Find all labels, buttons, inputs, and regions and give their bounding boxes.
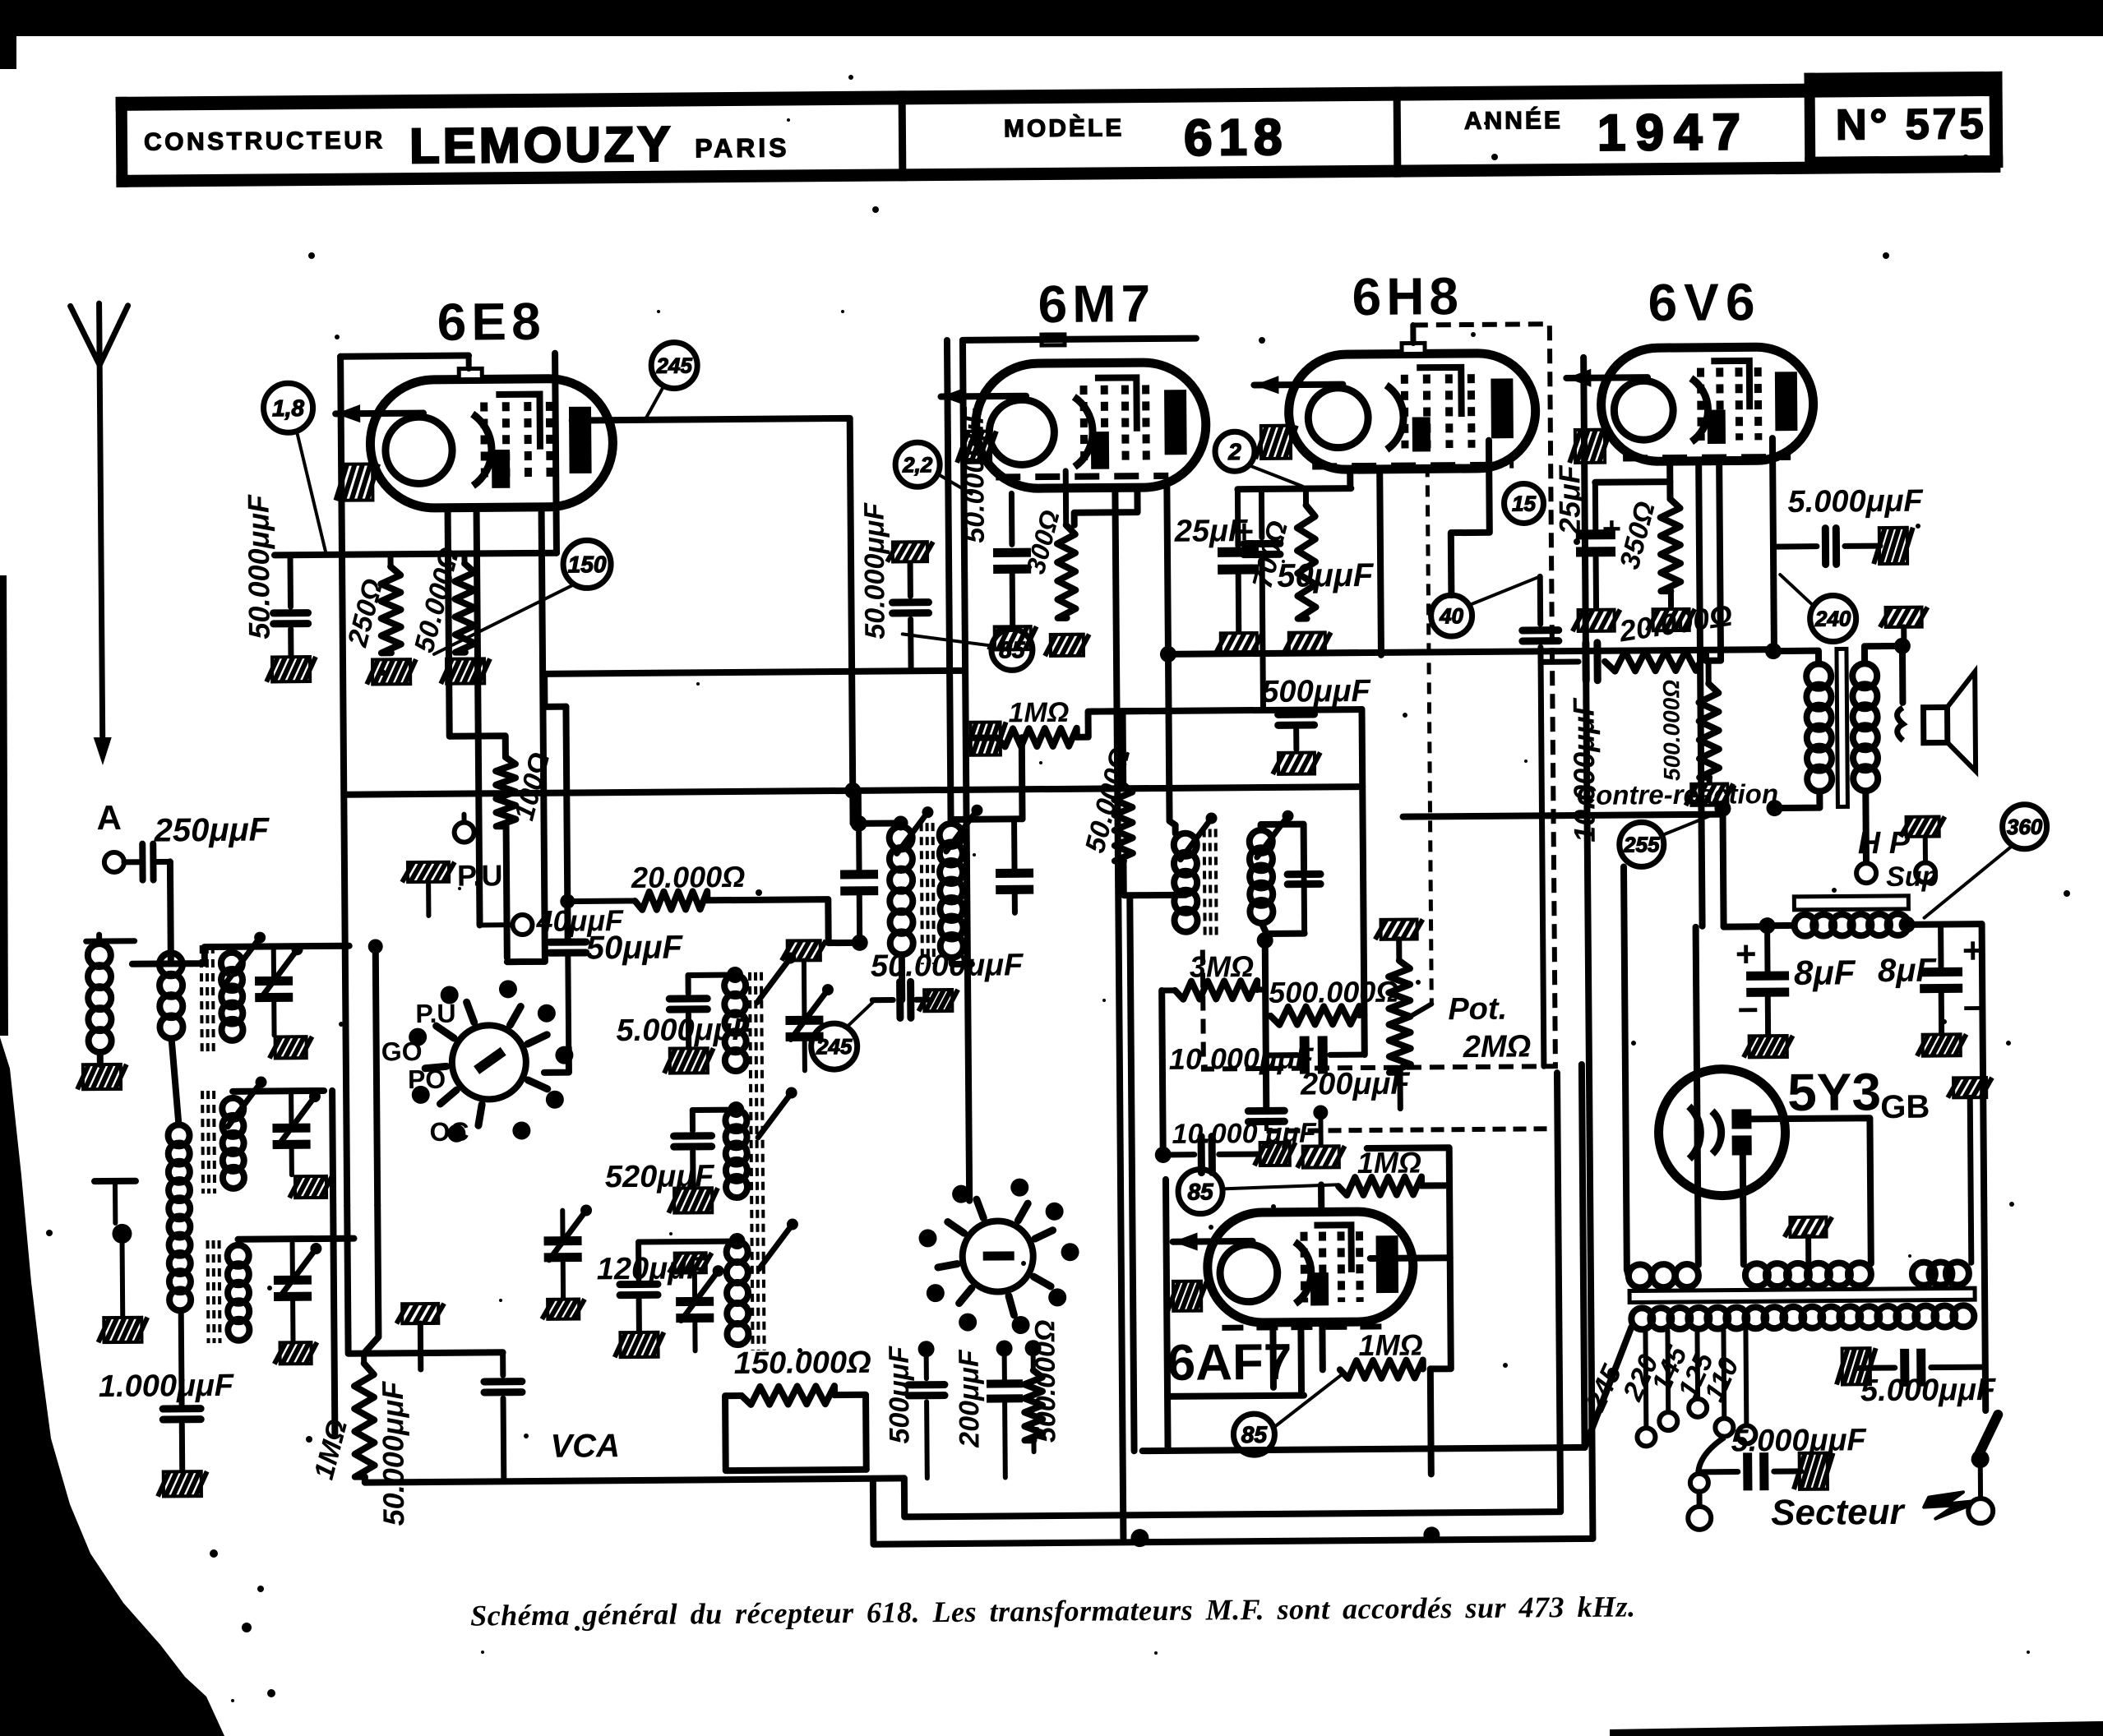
ground 8uF a xyxy=(1744,1036,1793,1057)
header brand LEMOUZY xyxy=(409,117,674,174)
wire xyxy=(725,1395,867,1471)
ground det xyxy=(1296,1105,1345,1167)
svg-text:500μμF: 500μμF xyxy=(1261,674,1372,709)
ground antenna coil xyxy=(77,1064,127,1089)
wire xyxy=(572,418,853,793)
svg-text:OC: OC xyxy=(429,1117,469,1147)
label 2MΩ xyxy=(1463,1029,1532,1064)
svg-text:Sup: Sup xyxy=(1886,861,1939,893)
svg-text:50.000μμF: 50.000μμF xyxy=(376,1381,410,1526)
tube 5Y3GB label xyxy=(1787,1062,1930,1126)
label GO xyxy=(381,1037,423,1066)
coupling network 6V6 20.000Ω xyxy=(1540,598,1735,681)
svg-text:6V6: 6V6 xyxy=(1648,272,1761,332)
svg-text:+: + xyxy=(1736,934,1757,974)
wire xyxy=(1768,922,1795,929)
wire xyxy=(963,339,1196,340)
svg-text:85: 85 xyxy=(1187,1179,1213,1204)
ground 6H8 arrow xyxy=(1255,426,1296,459)
header city PARIS xyxy=(695,132,790,163)
svg-text:GB: GB xyxy=(1880,1089,1930,1125)
wire xyxy=(1770,649,1777,651)
wire xyxy=(97,1052,104,1064)
wire line 866 xyxy=(1092,709,1362,712)
wire xyxy=(506,826,507,958)
wire vertical 456 xyxy=(376,946,377,1205)
wire xyxy=(1773,651,1819,664)
wire xyxy=(544,1048,569,1073)
circled 245 xyxy=(645,342,698,418)
trimmer C t2 xyxy=(274,1243,323,1341)
antenna xyxy=(71,303,132,766)
tube 6V6 metallization dashes xyxy=(1623,457,1791,459)
capacitor 500μμF xyxy=(1261,674,1372,774)
capacitor 25μF 6H8 xyxy=(1173,489,1259,632)
resistor 500.000Ω osc xyxy=(1024,1319,1061,1452)
potentiometer 2MΩ xyxy=(1375,919,1425,1108)
wire xyxy=(1666,462,1673,499)
resistor 50.000Ω screen feed xyxy=(1079,744,1138,895)
svg-text:85: 85 xyxy=(999,637,1025,663)
hatch block t1b xyxy=(289,1176,332,1198)
wire xyxy=(1237,488,1351,489)
wire xyxy=(1265,940,1267,1110)
wire xyxy=(970,735,997,741)
wire xyxy=(1168,654,1176,825)
wire xyxy=(834,1395,867,1470)
top cap 6E8 xyxy=(459,355,482,379)
wire vertical 402 xyxy=(332,1091,335,1436)
top cap 6H8 xyxy=(1402,325,1425,353)
header label ANNEE xyxy=(1464,106,1563,135)
resistor 500.000Ω 6V6 xyxy=(1658,661,1719,783)
hatch HP xyxy=(1901,816,1945,836)
capacitor 1.000μμF xyxy=(98,1310,235,1471)
wire screen to T2 xyxy=(1124,892,1186,899)
ground 6V6 arrow xyxy=(1569,430,1611,463)
wire B+ 797 xyxy=(1168,649,1773,654)
svg-text:ANNÉE: ANNÉE xyxy=(1464,106,1563,135)
wire xyxy=(899,954,905,1000)
wire xyxy=(1261,824,1304,870)
wire xyxy=(448,507,506,758)
ground 6AF7 xyxy=(1167,1281,1207,1311)
svg-text:5.000μμF: 5.000μμF xyxy=(1787,484,1924,519)
wire xyxy=(1166,1179,1304,1397)
label PO xyxy=(408,1064,446,1094)
wire vertical 1922 xyxy=(1582,1064,1585,1447)
capacitor 50μμF xyxy=(550,930,685,1048)
ground 50000pf xyxy=(266,657,316,681)
wire 6M7 pin2 long xyxy=(1115,487,1123,1538)
svg-text:40: 40 xyxy=(1439,603,1464,628)
antenna coil GO winding xyxy=(168,1124,191,1310)
tube 6H8 label xyxy=(1352,266,1463,326)
capacitor 200μμF osc xyxy=(954,1348,1024,1478)
wire xyxy=(707,899,859,944)
trimmer C t1 xyxy=(255,944,304,1035)
power transformer T3 xyxy=(1629,1262,1976,1329)
coil L4 with core xyxy=(208,1240,250,1343)
wire xyxy=(1162,990,1163,1155)
ground OT xyxy=(1880,607,1928,650)
wire xyxy=(1722,805,1723,927)
circled 15 xyxy=(1504,483,1543,523)
ground 250ohm xyxy=(367,659,416,684)
antenna coil primary xyxy=(86,935,136,1052)
label contre reaction xyxy=(1576,778,1778,810)
osc coil 1 xyxy=(724,952,797,1071)
ground 520pf xyxy=(668,1188,718,1212)
wire xyxy=(555,353,557,553)
pot wiper dashed xyxy=(1406,465,1431,1016)
resistor 1MΩ AVC 6M7 xyxy=(964,697,1077,755)
wire xyxy=(1699,462,1702,926)
label Pot xyxy=(1448,992,1507,1027)
tube 6M7 xyxy=(941,362,1206,490)
svg-text:150: 150 xyxy=(568,552,607,577)
header band xyxy=(116,82,2001,187)
wire bus VCA xyxy=(365,1478,904,1482)
circled 2,2 xyxy=(895,442,971,495)
tube 6AF7 label xyxy=(1167,1334,1292,1392)
wire xyxy=(1262,923,1305,934)
speaker xyxy=(1897,672,1976,772)
wire xyxy=(1627,1270,1629,1277)
tube 6E8 label xyxy=(437,292,545,352)
wire long bus 960 xyxy=(344,787,1362,795)
tube 6AF7 xyxy=(1172,1212,1413,1323)
tube 6M7 metallization dashes xyxy=(996,476,1168,478)
svg-text:5Y3: 5Y3 xyxy=(1787,1062,1881,1122)
capacitor 250μμF antenna series xyxy=(123,811,270,880)
trimmer osc B xyxy=(669,1253,725,1351)
circled 85 c xyxy=(903,629,1033,671)
svg-text:5.000μμF: 5.000μμF xyxy=(616,1013,752,1048)
svg-text:50.000μμF: 50.000μμF xyxy=(959,406,991,543)
wire xyxy=(1862,791,1870,863)
wire xyxy=(1077,711,1167,737)
svg-text:50.000μμF: 50.000μμF xyxy=(871,948,1024,983)
tap label 110 xyxy=(1698,1353,1745,1407)
resistor 700Ω xyxy=(1246,488,1315,619)
svg-text:Secteur: Secteur xyxy=(1771,1492,1907,1533)
oscillator coil core xyxy=(750,972,765,1350)
wire xyxy=(1120,711,1127,784)
coil L3b with core xyxy=(202,1077,268,1194)
tap label 145 xyxy=(1645,1341,1694,1397)
capacitor T1 secondary xyxy=(996,822,1034,912)
svg-text:500.000Ω: 500.000Ω xyxy=(1658,680,1685,781)
resistor 50.000Ω cathode xyxy=(408,544,475,657)
wire xyxy=(167,861,174,963)
svg-text:250μμF: 250μμF xyxy=(153,811,270,848)
wire xyxy=(1773,438,1774,649)
svg-text:1MΩ: 1MΩ xyxy=(1358,1327,1422,1362)
tube 6V6 xyxy=(1566,347,1814,462)
wire xyxy=(952,958,972,964)
circled 1,8 xyxy=(263,383,326,552)
capacitor 25μF 6V6 xyxy=(1552,464,1622,608)
terminal HP2 xyxy=(1916,837,1935,883)
dashed box detector xyxy=(1198,324,1555,1069)
wire xyxy=(176,947,229,964)
tube 6AF7 metallization dashes xyxy=(1222,1327,1394,1328)
wire xyxy=(347,1204,502,1353)
capacitor 5.000μμF anode xyxy=(1773,484,1925,565)
wire xyxy=(132,960,176,967)
tube 5Y3GB xyxy=(1658,1069,1786,1196)
secteur terminal 1 xyxy=(1688,1492,1711,1530)
circled 240 xyxy=(1780,574,1856,642)
svg-text:PO: PO xyxy=(408,1064,446,1094)
junction t1 xyxy=(850,815,867,832)
header label CONSTRUCTEUR xyxy=(144,127,386,155)
svg-text:LEMOUZY: LEMOUZY xyxy=(409,117,674,174)
wire xyxy=(477,507,478,718)
wire xyxy=(363,1205,378,1353)
capacitor T2 sec xyxy=(1287,874,1321,933)
ground screen cap xyxy=(989,626,1037,649)
svg-text:1.000μμF: 1.000μμF xyxy=(99,1369,235,1404)
header year 1947 xyxy=(1597,104,1750,161)
resistor 250Ω xyxy=(341,554,401,653)
terminal PU1 xyxy=(454,815,474,843)
wire HT left xyxy=(1624,867,1627,1270)
wire xyxy=(1380,469,1381,655)
wire xyxy=(1347,469,1353,488)
ground 8uF b xyxy=(1917,1034,1967,1055)
tap label 220 xyxy=(1616,1350,1665,1406)
capacitor 500μμF osc xyxy=(884,1345,945,1478)
wire xyxy=(544,671,964,674)
svg-text:245: 245 xyxy=(816,1034,853,1059)
circled 255 b xyxy=(1619,813,1718,867)
ground 350ohm xyxy=(1648,609,1695,630)
capacitor 520μμF xyxy=(604,1110,737,1194)
capacitor 8μF a xyxy=(1736,925,1857,1034)
wire xyxy=(238,1239,354,1240)
tube 6M7 label xyxy=(1038,274,1155,334)
resistor 3MΩ xyxy=(1162,949,1265,1000)
resistor 20.000Ω xyxy=(567,860,746,911)
terminal T terre xyxy=(95,1181,136,1316)
hatch block t1 xyxy=(270,1037,312,1058)
svg-text:8μF: 8μF xyxy=(1794,953,1856,992)
wire xyxy=(1074,487,1137,525)
svg-text:2MΩ: 2MΩ xyxy=(1463,1029,1532,1064)
scan artifact top bar xyxy=(0,0,2103,69)
svg-text:50.000μμF: 50.000μμF xyxy=(241,494,275,639)
svg-text:5.000μμF: 5.000μμF xyxy=(1860,1373,1997,1408)
resistor 150.000Ω xyxy=(734,1346,872,1405)
svg-text:−: − xyxy=(1737,990,1759,1030)
capacitor 50.000μμF AVC xyxy=(375,1304,446,1526)
trimmer osc A xyxy=(782,940,834,1070)
resistor 100Ω xyxy=(496,750,557,827)
svg-text:50.000μμF: 50.000μμF xyxy=(858,502,890,639)
filter choke xyxy=(1794,896,1908,936)
capacitor 8μF b xyxy=(1878,924,1985,1033)
hatch HV center tap xyxy=(1784,1217,1832,1264)
top cap 6M7 xyxy=(1042,335,1065,345)
resistor 1MΩ a xyxy=(1338,1145,1422,1195)
wire vertical 1658 xyxy=(1361,709,1364,1015)
tube 6H8 metallization dashes xyxy=(1312,465,1514,467)
label OC xyxy=(429,1117,469,1147)
ground 5000pf osc xyxy=(664,1048,714,1073)
label HP xyxy=(1858,826,1911,861)
ground 700ohm xyxy=(1283,632,1331,653)
svg-text:3MΩ: 3MΩ xyxy=(1190,949,1254,984)
capacitor T1 primary xyxy=(839,791,878,943)
wire xyxy=(1909,921,1982,928)
wire xyxy=(857,820,901,826)
wire xyxy=(1706,658,1721,664)
scan artifact bottom right strip xyxy=(1610,1721,2103,1736)
label PU xyxy=(457,858,511,893)
wire bus bottom1 xyxy=(873,1473,1593,1544)
header sheet number box N 575 xyxy=(1804,72,2003,169)
tap label 245 xyxy=(1579,1359,1629,1416)
terminal 40μμF xyxy=(479,903,624,938)
wire xyxy=(1595,478,1670,486)
svg-text:P.U.: P.U. xyxy=(457,858,511,893)
wire xyxy=(849,791,856,824)
svg-text:50μμF: 50μμF xyxy=(1277,557,1375,594)
IF transformer T1 xyxy=(889,805,984,965)
IF transformer T2 xyxy=(1173,810,1294,940)
wire xyxy=(1696,927,1699,1265)
wire xyxy=(1982,924,1986,1410)
wire bus 1766 xyxy=(1143,1447,1585,1451)
wire 6AF7 anode xyxy=(1370,1254,1450,1262)
ground 1000pf xyxy=(158,1471,207,1496)
hatch PU xyxy=(402,862,455,916)
svg-text:P.U: P.U xyxy=(415,999,455,1028)
label Sup xyxy=(1886,861,1939,893)
wire primary left xyxy=(1583,1327,1632,1447)
wire xyxy=(1318,1184,1324,1212)
resistor 500.000Ω xyxy=(1265,975,1399,1025)
wire 6V6 box edge xyxy=(1583,358,1592,1539)
label Secteur xyxy=(1771,1491,1983,1533)
tap label 125 xyxy=(1671,1347,1720,1404)
circled 245 b xyxy=(811,1003,873,1070)
wire xyxy=(898,823,904,826)
ground 50000ohm xyxy=(441,658,490,683)
resistor 350Ω xyxy=(1614,498,1681,608)
wire xyxy=(1167,487,1168,653)
svg-text:6H8: 6H8 xyxy=(1352,266,1463,326)
svg-text:360: 360 xyxy=(2007,815,2043,839)
ground 6E8 shell xyxy=(335,464,378,500)
capacitor 10.000μμF coupling xyxy=(1522,576,1603,1067)
wire xyxy=(172,1038,179,1124)
svg-text:6M7: 6M7 xyxy=(1038,274,1155,334)
svg-text:245: 245 xyxy=(655,353,692,378)
header model number 618 xyxy=(1184,109,1289,167)
terminal A xyxy=(96,798,124,872)
primary taps xyxy=(1636,1330,1755,1446)
capacitor 200μμF det xyxy=(1266,1036,1412,1102)
tube 6E8 xyxy=(335,378,613,509)
wire xyxy=(1429,1185,1451,1369)
resistor 1MΩ AVC xyxy=(307,1353,375,1483)
svg-text:GO: GO xyxy=(381,1037,423,1066)
resistor 300Ω xyxy=(1019,471,1075,619)
wire xyxy=(1719,462,1721,661)
antenna coil secondary xyxy=(159,953,183,1038)
header label MODELE xyxy=(1004,113,1125,142)
capacitor 50.000μμF AVC b xyxy=(484,1352,523,1481)
output transformer xyxy=(1806,649,1879,807)
wire xyxy=(951,815,1023,823)
capacitor 5.000μμF osc xyxy=(616,975,753,1048)
capacitor 50.000μμF plate bus xyxy=(858,501,934,672)
svg-text:1MΩ: 1MΩ xyxy=(1008,697,1069,729)
terminal HP1 xyxy=(1856,863,1876,883)
wire xyxy=(478,718,480,925)
svg-text:618: 618 xyxy=(1184,109,1289,167)
label VCA xyxy=(550,1428,620,1465)
svg-text:VCA: VCA xyxy=(550,1428,620,1465)
junction T2 xyxy=(1257,932,1273,949)
trimmer left A xyxy=(541,1204,593,1318)
wire bus bottom2 xyxy=(901,1073,1560,1517)
wire xyxy=(1450,441,1490,595)
ground 120pf xyxy=(614,1332,663,1357)
tap S wire xyxy=(1689,1438,1725,1492)
hatch block t2 xyxy=(275,1342,317,1364)
capacitor 50μμF xyxy=(1243,491,1375,710)
junction 6M7 anode xyxy=(1160,646,1176,663)
svg-text:+: + xyxy=(1602,511,1622,547)
wire xyxy=(1899,646,1907,703)
svg-text:2: 2 xyxy=(1227,439,1241,464)
wire xyxy=(1865,646,1902,663)
svg-text:N° 575: N° 575 xyxy=(1836,100,1987,149)
wire xyxy=(1743,1153,1744,1264)
coil L3 with core xyxy=(201,932,267,1052)
wire xyxy=(1403,815,1723,817)
dashed bottom det xyxy=(1266,1115,1555,1131)
wire xyxy=(340,356,469,357)
capacitor 50.000μμF grid xyxy=(871,948,1025,1018)
wire xyxy=(1774,792,1819,808)
svg-text:240: 240 xyxy=(1814,606,1851,630)
wire xyxy=(1367,1147,1449,1186)
capacitor 5.000μμF mains a xyxy=(1699,1423,1868,1491)
hatch 5Y3 right xyxy=(1948,1078,1994,1263)
trimmer C t1b xyxy=(272,1091,321,1175)
wire xyxy=(1724,923,1768,930)
circled 40 xyxy=(1431,576,1541,636)
wire xyxy=(1431,1369,1431,1474)
svg-text:Contre-réaction: Contre-réaction xyxy=(1576,778,1778,810)
wire long left box xyxy=(340,357,347,1206)
capacitor 120μμF xyxy=(597,1241,738,1331)
junction dots osc xyxy=(918,1340,1042,1357)
svg-text:H P: H P xyxy=(1858,826,1911,861)
svg-text:PARIS: PARIS xyxy=(695,132,790,163)
wire xyxy=(1172,825,1179,833)
junction dots misc xyxy=(367,782,911,1252)
circled 150 xyxy=(433,540,612,654)
osc coil 2 xyxy=(725,1087,798,1198)
capacitor 10.000μμF 2 xyxy=(1154,1117,1317,1173)
ground 300ohm xyxy=(1045,635,1089,656)
